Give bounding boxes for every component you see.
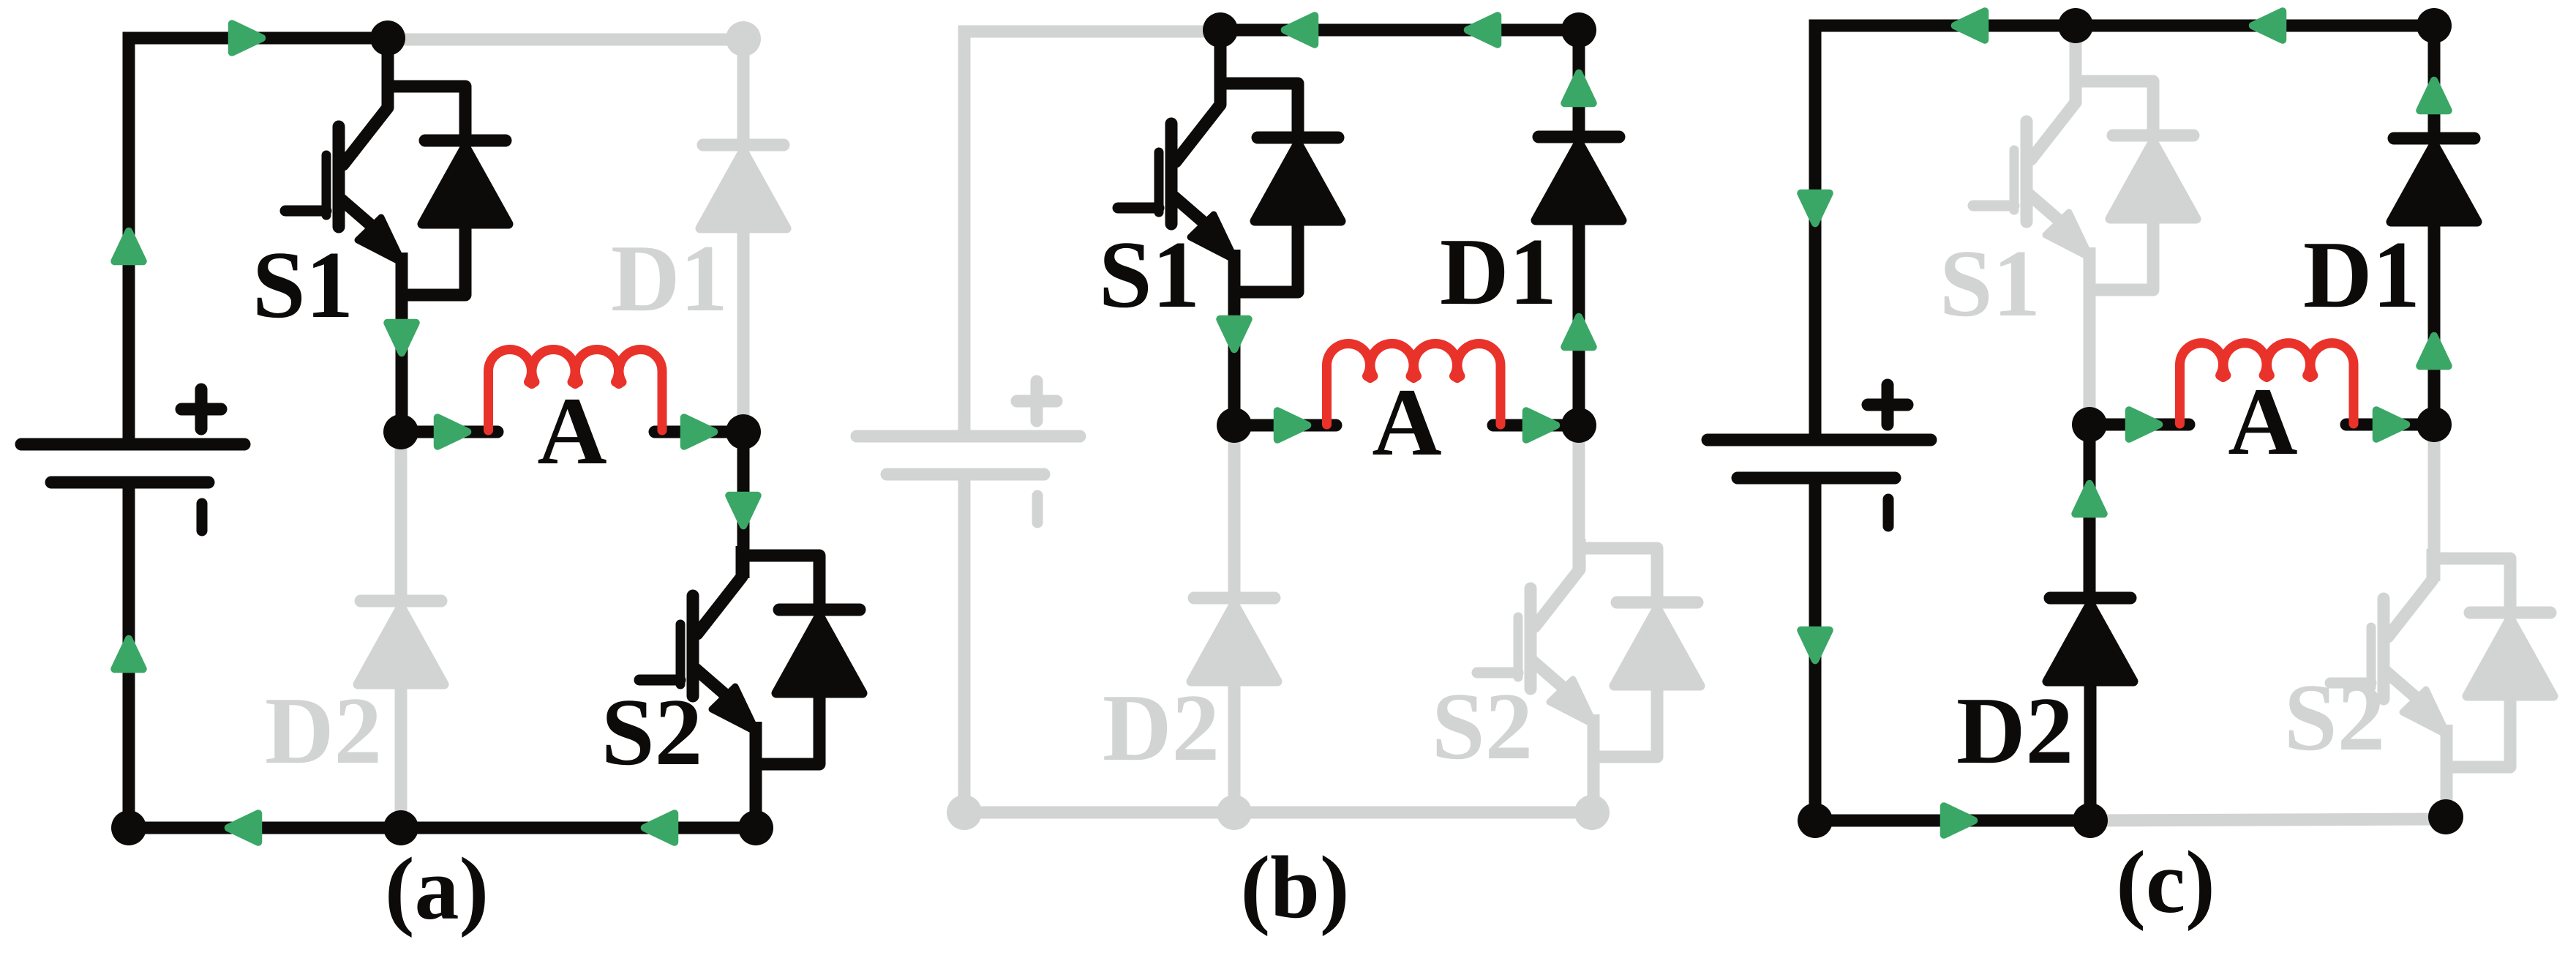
svg-text:D2: D2 (1103, 675, 1220, 781)
node: S1 collector junction (c) (2058, 8, 2093, 43)
current arrow: out of inductor rightwards (c) (2376, 411, 2406, 439)
node A-left (c) (2072, 407, 2107, 442)
wire: top wire battery to S1 collector node (a) (129, 38, 388, 444)
node: grey bottom-left corner (b) (947, 795, 982, 830)
svg-text:D1: D1 (2303, 222, 2420, 328)
node: grey D2 bottom junction (b) (1217, 795, 1252, 830)
wire: S1 collector stem (b) (1214, 30, 1227, 81)
wire: grey top wire from S1 node to D1 branch (a) (395, 40, 743, 139)
wire: D2 upper lead from node A-left (c) (2084, 425, 2096, 594)
transistor S2 (c, grey inactive IGBT) (2330, 549, 2553, 767)
node: grey S2 bottom junction (b) (1574, 795, 1610, 830)
current arrow: bottom wire leftwards left (a) (228, 814, 258, 842)
current arrow: left wire downwards (c) (1801, 193, 1830, 223)
wire: inductor to node A-right (c) (2346, 419, 2434, 431)
wire: grey S1 emitter to node A-left (c) (2084, 247, 2096, 423)
svg-text:A: A (1372, 368, 1441, 476)
battery V1 (a) (21, 389, 244, 531)
node: D2 bottom junction (c) (2073, 803, 2108, 838)
current arrow: D1 lower upwards (b) (1565, 317, 1593, 347)
svg-text:(a): (a) (385, 840, 489, 938)
node A-left (a) (383, 414, 418, 449)
transistor S1 (a, IGBT active) (285, 77, 508, 295)
wire: grey D1 lower lead to node A (a) (737, 227, 750, 423)
current arrow: bottom wire rightwards (c) (1944, 807, 1974, 835)
svg-text:S2: S2 (1432, 673, 1533, 780)
inductor A (c, red coil) (2180, 343, 2354, 424)
wire: grey S2 emitter lead (b) (1588, 714, 1600, 812)
current arrow: S1 emitter downwards (b) (1220, 319, 1249, 349)
wire: grey D2 upper lead from node A-left (a) (395, 433, 408, 597)
node: S2 emitter bottom junction (a) (738, 810, 773, 845)
wire: grey D2 upper lead (b) (1228, 427, 1241, 594)
svg-text:S1: S1 (1099, 222, 1200, 328)
transistor S2 (a, IGBT active) (639, 546, 863, 764)
battery V1 (b, grey inactive) (857, 381, 1080, 523)
current arrow: top wire rightwards (a) (232, 24, 262, 53)
wire: grey S1 collector stem (c) (2070, 27, 2082, 102)
wire: grey battery stem to bottom (b) (958, 474, 971, 812)
svg-text:(b): (b) (1240, 838, 1349, 937)
wire: D1 lower lead to node A-right (c) (2428, 220, 2441, 425)
diode D2 (b, grey inactive) (1191, 598, 1277, 681)
wire: bottom wire black part (c) (1815, 815, 2090, 827)
wire: S1 collector stem (a) (382, 38, 394, 84)
node A-right (a) (726, 414, 761, 449)
wire: D1 upper lead (c) (2428, 26, 2441, 133)
node: bottom-left corner (a) (111, 810, 146, 845)
wire: grey S2 collector stem (b) (1573, 427, 1585, 571)
wire: grey bottom return wire (b) (964, 807, 1592, 819)
node: grey junction top-right (a) (726, 21, 761, 56)
wire: node A-left to inductor (c) (2089, 419, 2189, 431)
node: bottom-left corner (c) (1798, 803, 1833, 838)
diode D2 (a, grey, inactive) (358, 601, 444, 684)
svg-text:(c): (c) (2116, 833, 2215, 932)
node: bottom-right junction (c) (2428, 799, 2463, 834)
wire: grey D2 lower lead (b) (1228, 678, 1241, 812)
svg-text:S1: S1 (1939, 231, 2040, 337)
svg-text:S2: S2 (601, 679, 702, 785)
wire: top wire S1 to D1 (b) (1220, 24, 1579, 37)
current arrow: top wire leftwards right (b) (1468, 16, 1498, 45)
current arrow: out of inductor rightwards (b) (1526, 411, 1556, 440)
wire: node A-left to inductor (b) (1234, 419, 1336, 432)
transistor S2 (b, grey inactive IGBT) (1477, 539, 1700, 757)
svg-text:S2: S2 (2284, 665, 2385, 771)
svg-text:S1: S1 (252, 232, 353, 338)
transistor S1 (b, IGBT active) (1118, 74, 1341, 292)
diode D1 (a, grey, inactive) (700, 145, 786, 228)
wire: bottom return wire (a) (129, 822, 756, 834)
current arrow: out of inductor rightwards (a) (684, 418, 714, 446)
wire: grey bottom wire right part (c) (2090, 819, 2447, 821)
wire: node A-right to S2 collector (a) (737, 432, 750, 578)
wire: S1 emitter to node A-left (a) (396, 253, 408, 432)
svg-text:D1: D1 (611, 225, 728, 332)
current arrow: left wire upwards lower (a) (115, 639, 143, 669)
current arrow: top wire leftwards left (b) (1285, 16, 1315, 45)
wire: node A-left to inductor (a) (401, 426, 497, 438)
inductor A (a, red coil) (489, 349, 663, 430)
wire: battery negative stem to bottom-left corner (a) (123, 482, 135, 828)
wire: grey S2 emitter lead (c) (2441, 725, 2453, 819)
current arrow: into inductor rightwards (a) (438, 418, 467, 446)
node A-right (b) (1561, 408, 1596, 443)
current arrow: top wire leftwards left (c) (1955, 12, 1985, 40)
diode D1 (c, active) (2391, 138, 2477, 222)
svg-text:A: A (537, 377, 607, 485)
wire: grey S2 collector stem (c) (2428, 426, 2441, 581)
wire: D2 lower lead to bottom wire (c) (2084, 678, 2097, 821)
wire: top wire battery to D1 corner (c) (1815, 26, 2434, 440)
diode D1 (b, active) (1536, 137, 1622, 220)
wire: D1 lower lead to node A-right (b) (1573, 219, 1585, 425)
current arrow: D2 upwards (c) (2076, 484, 2104, 514)
battery V1 (c) (1708, 385, 1931, 526)
current arrow: into inductor rightwards (c) (2129, 411, 2159, 439)
current arrow: D1 upper upwards (b) (1565, 73, 1593, 103)
current arrow: down to S2 (a) (729, 496, 758, 526)
svg-text:D2: D2 (1956, 678, 2073, 784)
wire: grey battery loop left side (b) (964, 31, 1220, 436)
wire: inductor to node A-right (a) (655, 426, 743, 438)
current arrow: into inductor rightwards (b) (1277, 411, 1307, 440)
wire: grey D2 lower lead to bottom wire (a) (395, 681, 408, 821)
svg-text:D1: D1 (1440, 219, 1557, 325)
wire: battery negative stem to bottom (c) (1809, 478, 1822, 821)
inductor A (b, red coil) (1327, 343, 1501, 425)
node: S1 collector junction (b) (1203, 12, 1238, 48)
svg-text:A: A (2228, 367, 2297, 475)
node: D1 top corner junction (c) (2417, 8, 2452, 43)
node: S1 collector junction (a) (370, 20, 405, 56)
current arrow: S1 emitter downwards (a) (388, 323, 416, 353)
wire: S2 emitter to bottom wire (a) (750, 722, 762, 828)
current arrow: D1 upper upwards (c) (2420, 81, 2449, 111)
node: D2 bottom junction (a) (383, 810, 418, 845)
wire: inductor to node A-right (b) (1493, 419, 1579, 432)
transistor S1 (c, grey inactive IGBT) (1973, 72, 2196, 290)
diode D2 (c, active) (2047, 598, 2133, 681)
node A-left (b) (1217, 408, 1252, 443)
current arrow: D1 lower upwards (c) (2420, 336, 2449, 366)
svg-text:D2: D2 (265, 678, 382, 784)
current arrow: below battery downwards (c) (1801, 630, 1830, 660)
current arrow: left wire upwards upper (a) (115, 231, 143, 261)
node: D1 top junction (b) (1561, 12, 1596, 48)
wire: D1 upper lead (b) (1573, 30, 1585, 132)
node A-right (c) (2417, 407, 2452, 442)
wire: S1 emitter to node A-left (b) (1228, 250, 1241, 425)
current arrow: bottom wire leftwards right (a) (645, 814, 675, 842)
current arrow: top wire leftwards right (c) (2253, 12, 2283, 40)
